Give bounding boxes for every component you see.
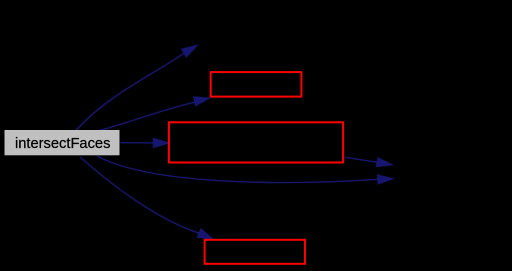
edge intersectFaces -> top node (invisible) — [76, 45, 197, 130]
node red 3 (bottom red box) — [205, 240, 305, 264]
edge intersectFaces -> red node 2 — [121, 138, 170, 147]
edge intersectFaces -> red node 1 — [99, 97, 210, 131]
svg-text:intersectFaces: intersectFaces — [15, 136, 111, 152]
node intersectFaces (current node, grey) — [5, 130, 120, 155]
edge red node 2 -> right node (invisible) — [345, 157, 392, 166]
node red 2 (middle red box) — [169, 122, 343, 162]
edge intersectFaces -> right node (invisible, long swoop) — [97, 156, 393, 184]
node red 1 (top red box) — [211, 72, 302, 97]
edge intersectFaces -> red node 3 (bottom) — [80, 157, 213, 239]
